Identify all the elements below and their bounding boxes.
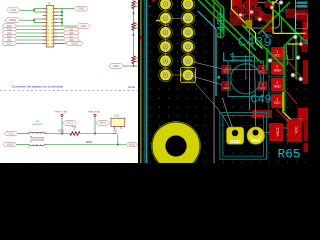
global label IO0 bbox=[64, 31, 80, 35]
wire bbox=[57, 18, 62, 20]
pad highlight box bbox=[181, 68, 196, 83]
global label WX02 bbox=[126, 142, 138, 147]
ratsnest line bbox=[240, 12, 252, 16]
trace green slash bbox=[258, 2, 290, 34]
footprint TP outline bbox=[220, 113, 267, 160]
pad VCC2 bbox=[270, 124, 284, 142]
svg-text:VCC2: VCC2 bbox=[276, 127, 280, 136]
global label GNDb bbox=[3, 142, 17, 147]
pad J5 pin 4 bbox=[181, 11, 195, 25]
pad J5 pin 12 bbox=[181, 68, 195, 82]
trace green to L2 b bbox=[216, 0, 224, 33]
svg-text:WX01: WX01 bbox=[71, 42, 78, 45]
wire L1 out bottom bbox=[45, 144, 49, 146]
global label WX01b bbox=[96, 120, 110, 125]
svg-text:J5: J5 bbox=[48, 2, 51, 6]
svg-text:GND: GND bbox=[7, 143, 13, 146]
footprint L2 outline bbox=[228, 57, 264, 97]
svg-text:WX02: WX02 bbox=[129, 143, 136, 146]
wire L1 out top bbox=[45, 133, 49, 135]
junction bbox=[33, 9, 35, 11]
trace yellow stub bbox=[156, 20, 161, 22]
trace yellow to via bbox=[283, 92, 297, 125]
ratsnest line bbox=[165, 0, 167, 75]
global label TX0 bbox=[2, 27, 16, 31]
svg-text:VCC1: VCC1 bbox=[67, 122, 74, 125]
trace yellow long horizontal bbox=[273, 32, 306, 34]
trace green stub bbox=[287, 55, 289, 65]
wire to pin 9 bbox=[34, 22, 43, 24]
wire VCC1 net bbox=[48, 133, 70, 135]
wire bus right vertical bbox=[61, 9, 63, 16]
ratsnest line bbox=[218, 109, 232, 130]
red mark on edge line bbox=[140, 36, 141, 40]
svg-text:CMD0: CMD0 bbox=[9, 18, 17, 22]
board edge line bbox=[140, 0, 142, 163]
trace green bbox=[206, 0, 257, 51]
pad J5 pin 11 bbox=[159, 68, 173, 82]
courtyard box top right bbox=[296, 14, 308, 29]
svg-text:VCC: VCC bbox=[274, 101, 281, 105]
pad VCC bbox=[272, 95, 284, 108]
wire to left pin row 11 bbox=[17, 43, 43, 45]
wire right bbox=[57, 32, 63, 34]
junction bbox=[33, 19, 35, 21]
junction bbox=[133, 34, 135, 36]
via bbox=[268, 59, 272, 63]
trace green bbox=[274, 10, 305, 41]
trace red diagonal bbox=[287, 60, 301, 77]
ratsnest line bbox=[265, 132, 272, 134]
capacitor C41 bbox=[111, 118, 125, 135]
pad J5 pin 1 bbox=[159, 0, 173, 11]
sheet divider dashed line bbox=[0, 90, 138, 92]
pad L2 VCC 2 bbox=[258, 66, 267, 74]
wire from label CON1 bbox=[20, 9, 34, 11]
pad J5 pin 10 bbox=[181, 54, 195, 68]
trace vertical blue-gray bbox=[143, 0, 145, 163]
trace vertical teal bbox=[145, 0, 147, 163]
svg-text:AC: AC bbox=[282, 9, 289, 14]
trace green right bbox=[289, 26, 296, 79]
wire from label CMD bbox=[20, 19, 34, 21]
pad J5 pin 3 bbox=[159, 11, 173, 25]
copper zone patch bbox=[252, 110, 272, 118]
svg-text:Connecter les signaux de comma: Connecter les signaux de commande bbox=[12, 85, 63, 89]
wire branch vertical bbox=[33, 9, 35, 13]
via red ring bbox=[258, 17, 262, 21]
wire rail vertical bbox=[133, 0, 135, 66]
pad J5 pin 5 bbox=[159, 26, 173, 40]
via bbox=[279, 1, 283, 5]
trace cyan stub bbox=[300, 36, 302, 42]
ratsnest line bbox=[166, 74, 189, 76]
svg-text:VCC: VCC bbox=[260, 70, 266, 74]
wire to pin 1 bbox=[34, 8, 43, 10]
svg-text:4: 4 bbox=[303, 39, 308, 50]
svg-text:R65: R65 bbox=[278, 147, 301, 162]
ratsnest across L2 bbox=[223, 69, 258, 71]
sheet edge marks bbox=[134, 3, 136, 5]
pad dark red bbox=[231, 13, 237, 21]
via marker red bbox=[148, 5, 150, 7]
svg-text:VCC: VCC bbox=[295, 126, 299, 134]
via large bbox=[295, 122, 300, 127]
pad dark red bbox=[254, 10, 260, 17]
via bbox=[291, 73, 295, 77]
wire flag1 down bbox=[61, 116, 63, 133]
via bbox=[293, 35, 297, 39]
pad dark red bbox=[263, 15, 272, 21]
wire to left pin row 8 bbox=[17, 32, 43, 34]
pad dark red bbox=[286, 9, 295, 18]
svg-text:PWR_FLAG: PWR_FLAG bbox=[88, 111, 100, 114]
ratsnest line bbox=[276, 127, 288, 129]
ratsnest vertical b bbox=[255, 55, 256, 126]
svg-text:GND: GND bbox=[81, 24, 87, 28]
global label RST bbox=[2, 34, 16, 38]
wire WX02 net bbox=[48, 144, 126, 146]
via bbox=[299, 77, 303, 81]
wire to GND label 2 bbox=[62, 25, 77, 27]
svg-text:C439: C439 bbox=[238, 35, 272, 51]
svg-text:VCC: VCC bbox=[251, 138, 260, 143]
wire bbox=[57, 22, 62, 24]
pad dark red right edge bbox=[302, 45, 308, 53]
wire branch vertical bbox=[33, 19, 35, 23]
global label VCC1 bbox=[63, 120, 77, 125]
pad J5 pin 8 bbox=[181, 40, 195, 54]
axis line bbox=[213, 0, 215, 163]
power flag PWR_FLAG2 bbox=[88, 111, 100, 117]
svg-text:GND1: GND1 bbox=[113, 65, 120, 68]
resistor R61 bbox=[132, 23, 136, 31]
pad J5 pin 2 bbox=[181, 0, 195, 11]
copper zone bottom right bbox=[298, 108, 308, 121]
wire right bbox=[57, 39, 63, 41]
inductor L1 ACM4520 bbox=[28, 132, 48, 149]
ratsnest diagonal to GND pad bbox=[222, 98, 233, 129]
wire to GND label bbox=[62, 8, 74, 10]
trace yellow bbox=[232, 0, 263, 49]
trace green stub2 bbox=[281, 17, 283, 33]
trace green vertical short bbox=[266, 48, 268, 70]
svg-text:CON: CON bbox=[10, 8, 16, 12]
ratsnest line bbox=[262, 35, 272, 37]
global label GND bbox=[74, 6, 88, 11]
pad GND test point bbox=[227, 127, 244, 145]
global label CS0 bbox=[64, 38, 80, 42]
global label IO1 bbox=[2, 31, 16, 35]
trace cyan bbox=[198, 11, 216, 96]
global label WX01 bbox=[66, 41, 83, 45]
global label EN bbox=[64, 27, 80, 31]
wire bbox=[57, 43, 66, 45]
trace cyan marker bbox=[217, 76, 220, 80]
ratsnest line bbox=[252, 4, 266, 15]
pad VCC bbox=[272, 48, 284, 60]
wire flag2 down bbox=[94, 116, 96, 133]
via red ring bbox=[299, 42, 303, 46]
ratsnest vertical a bbox=[248, 0, 250, 110]
junction bbox=[133, 12, 135, 14]
ratsnest line bbox=[187, 47, 189, 75]
svg-text:PWR_FLAG: PWR_FLAG bbox=[55, 111, 67, 114]
wire to left pin row 6 bbox=[17, 25, 43, 27]
ratsnest line vertical right bbox=[294, 0, 296, 35]
svg-text:GND: GND bbox=[274, 68, 282, 72]
pad GND bbox=[272, 62, 284, 75]
pad L2 GND 4 bbox=[258, 82, 267, 90]
copper zone right edge bbox=[303, 22, 309, 43]
wire bbox=[57, 25, 62, 27]
wire vertical group2 bbox=[61, 19, 63, 26]
pad row comb bbox=[297, 9, 308, 21]
zone hatch lines bbox=[233, 0, 247, 10]
junction bbox=[117, 144, 119, 146]
ratsnest line bbox=[188, 75, 223, 85]
ratsnest line bbox=[166, 17, 189, 19]
connector J5 bbox=[43, 6, 58, 48]
trace yellow bbox=[272, 1, 274, 33]
svg-text:GND: GND bbox=[274, 85, 282, 89]
global label D1 bbox=[64, 34, 80, 38]
svg-text:SCK0: SCK0 bbox=[6, 42, 13, 45]
pad dark red bbox=[281, 47, 287, 55]
pad J5 pin 7 bbox=[159, 40, 173, 54]
resistor R65 schematic bbox=[70, 132, 80, 136]
power flag PWR_FLAG1 bbox=[55, 111, 67, 117]
svg-text:GND: GND bbox=[259, 86, 265, 90]
pad dark red bbox=[263, 26, 272, 32]
ratsnest line bbox=[188, 61, 223, 69]
wire to GND1 label bbox=[124, 65, 138, 67]
junction bbox=[61, 22, 63, 24]
junction bbox=[61, 133, 63, 135]
pad L2 GND 3 bbox=[222, 82, 231, 90]
wire to left pin row 7 bbox=[17, 29, 43, 31]
wire right bbox=[57, 36, 63, 38]
ratsnest vertical L2 bbox=[245, 55, 247, 79]
global label GND bbox=[77, 24, 91, 29]
anchor dot L2 bbox=[245, 78, 247, 80]
pad R65-1 group bbox=[288, 120, 301, 142]
via bbox=[296, 56, 300, 60]
pad J5 pin 9 bbox=[159, 54, 173, 68]
PCB view background bbox=[138, 0, 308, 163]
pad dark red bbox=[244, 2, 250, 8]
junction bbox=[133, 65, 135, 67]
wire to pin 3 bbox=[34, 11, 43, 13]
trace green bbox=[242, 25, 284, 67]
pad olive small bbox=[246, 20, 253, 28]
trace red diagonal 3 bbox=[276, 109, 294, 127]
trace yellow horizontal bbox=[288, 43, 300, 45]
pad grid dark red bbox=[231, 1, 273, 26]
courtyard box small bbox=[287, 44, 294, 60]
copper zone bottom corner bbox=[304, 143, 309, 152]
trace red diagonal 2 bbox=[285, 90, 297, 104]
wire bbox=[57, 8, 62, 10]
footprint TP inner outline bbox=[223, 116, 264, 157]
global label RX0 bbox=[2, 24, 16, 28]
courtyard big component bbox=[244, 3, 280, 29]
svg-text:WX02: WX02 bbox=[86, 142, 93, 144]
trace green vertical bbox=[284, 35, 295, 111]
global label CMD0 bbox=[5, 18, 20, 23]
wire to pin 7 bbox=[34, 18, 43, 20]
wire bbox=[57, 11, 62, 13]
pad L2 VCC 1 bbox=[222, 66, 231, 74]
svg-text:C439: C439 bbox=[217, 13, 229, 39]
via red ring bbox=[239, 13, 243, 17]
copper fill patches top bbox=[232, 0, 242, 7]
svg-text:Conn: Conn bbox=[128, 85, 136, 89]
pad J5 pin 6 bbox=[181, 26, 195, 40]
red dash top left bbox=[152, 0, 155, 2]
ratsnest line bbox=[188, 75, 218, 109]
trace green bbox=[199, 0, 263, 64]
wire C41 down bbox=[117, 135, 119, 145]
svg-text:VCC1: VCC1 bbox=[58, 131, 65, 133]
resistor R62 bbox=[132, 56, 136, 64]
junction bbox=[94, 133, 96, 135]
teal pad bars top right bbox=[297, 2, 308, 5]
svg-text:VCC: VCC bbox=[9, 132, 14, 135]
svg-text:ACM4520: ACM4520 bbox=[33, 123, 44, 126]
svg-text:GND: GND bbox=[78, 7, 84, 11]
junction bbox=[61, 11, 63, 13]
trace yellow bend bbox=[273, 0, 277, 4]
via red ring bbox=[270, 6, 274, 10]
copper zone right mid bbox=[303, 60, 308, 84]
svg-text:C41: C41 bbox=[115, 114, 120, 117]
svg-text:L1: L1 bbox=[222, 51, 236, 65]
pad dark red bbox=[296, 11, 304, 19]
trace cyan diagonal bbox=[262, 30, 269, 37]
wire right bbox=[57, 43, 63, 45]
wire to left pin row 10 bbox=[17, 39, 43, 41]
via red ring bbox=[250, 10, 254, 14]
resistor R60 bbox=[132, 1, 136, 9]
pad VCC test point bbox=[247, 127, 265, 145]
footprint R/C column outline bbox=[269, 46, 285, 119]
svg-text:C49: C49 bbox=[251, 93, 272, 107]
svg-text:WX01: WX01 bbox=[100, 122, 107, 125]
wire VCC1 net b bbox=[80, 133, 116, 135]
junction bbox=[61, 15, 63, 17]
global label VCC bbox=[5, 131, 19, 136]
svg-text:GND: GND bbox=[230, 139, 241, 145]
trace green bbox=[268, 0, 275, 6]
wire to left pin row 9 bbox=[17, 36, 43, 38]
pad R65-1 bbox=[287, 119, 302, 143]
junction bbox=[61, 18, 63, 20]
global label SCK0 bbox=[2, 41, 16, 45]
mounting hole pad bbox=[152, 122, 201, 171]
global label CON bbox=[7, 8, 20, 13]
wire GND to L1 bbox=[17, 144, 30, 146]
global label GND1 bbox=[109, 64, 124, 69]
pad GND bbox=[272, 78, 284, 91]
wire right bbox=[57, 29, 63, 31]
wire bbox=[57, 15, 62, 17]
copper zone right of R65 bbox=[304, 122, 309, 141]
wire VCC to L1 bbox=[18, 133, 30, 135]
global label IO2 bbox=[2, 38, 16, 42]
trace green to L2 bbox=[212, 0, 221, 38]
